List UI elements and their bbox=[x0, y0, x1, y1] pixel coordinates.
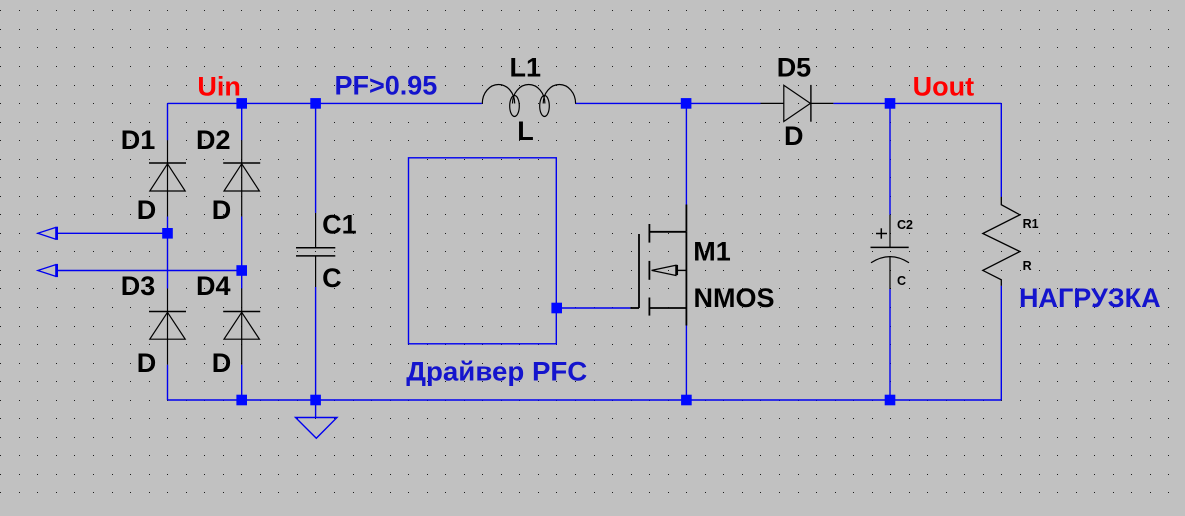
svg-text:D: D bbox=[137, 348, 157, 378]
svg-text:D: D bbox=[137, 195, 157, 225]
svg-text:Uin: Uin bbox=[197, 71, 241, 101]
svg-text:C: C bbox=[322, 263, 342, 293]
svg-text:D4: D4 bbox=[196, 271, 231, 301]
svg-text:D: D bbox=[784, 121, 804, 151]
svg-text:C1: C1 bbox=[322, 210, 357, 240]
svg-text:R1: R1 bbox=[1023, 217, 1039, 231]
svg-text:D: D bbox=[212, 195, 232, 225]
svg-text:D2: D2 bbox=[196, 125, 231, 155]
svg-text:Uout: Uout bbox=[913, 72, 974, 102]
svg-text:D5: D5 bbox=[777, 52, 812, 82]
svg-text:D3: D3 bbox=[121, 271, 156, 301]
svg-text:NMOS: NMOS bbox=[694, 283, 775, 313]
svg-text:M1: M1 bbox=[693, 237, 731, 267]
svg-text:PF>0.95: PF>0.95 bbox=[335, 70, 438, 100]
svg-text:D1: D1 bbox=[121, 125, 156, 155]
svg-text:Драйвер PFC: Драйвер PFC bbox=[406, 357, 587, 387]
svg-text:L: L bbox=[517, 116, 534, 146]
svg-text:НАГРУЗКА: НАГРУЗКА bbox=[1019, 283, 1161, 313]
svg-text:C2: C2 bbox=[897, 218, 913, 232]
svg-text:D: D bbox=[212, 348, 232, 378]
svg-text:L1: L1 bbox=[510, 52, 542, 82]
svg-text:R: R bbox=[1023, 259, 1032, 273]
svg-text:C: C bbox=[897, 274, 906, 288]
